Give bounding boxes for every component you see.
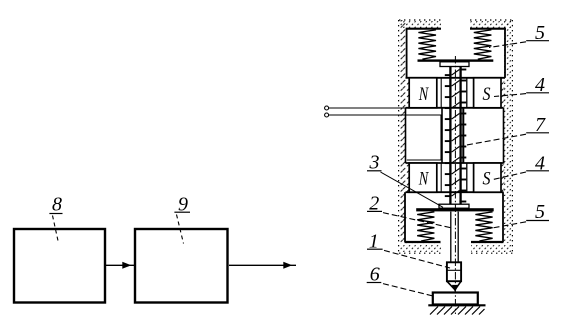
air gap line left row 2 bbox=[440, 163, 442, 192]
wire arrow 8 to 9 bbox=[106, 262, 134, 269]
lower chamber left wall bbox=[404, 192, 406, 242]
holder 1 bbox=[447, 262, 461, 281]
label 4 bottom bbox=[493, 153, 549, 180]
svg-text:N: N bbox=[418, 84, 429, 105]
magnet S row 1 bbox=[474, 78, 501, 108]
magnet S row 2 bbox=[474, 163, 501, 192]
label 6 bbox=[367, 263, 433, 296]
lower chamber floor bbox=[405, 241, 441, 243]
casing dotted outline right bbox=[511, 20, 513, 253]
terminal circle upper bbox=[325, 106, 329, 110]
air gap line right row 2 bbox=[466, 163, 468, 192]
lower chamber right wall bbox=[502, 192, 504, 242]
label 2 bbox=[367, 192, 452, 228]
block 9 bbox=[135, 229, 228, 303]
spring 5 upper right bbox=[474, 30, 492, 59]
label 1 bbox=[367, 230, 450, 268]
air gap line left row 1 bbox=[440, 78, 442, 108]
casing dotted outline bottom bbox=[399, 252, 441, 254]
casing hatched left wall bbox=[399, 20, 406, 243]
label 3 bbox=[367, 152, 443, 208]
label 8 bbox=[49, 194, 62, 244]
ground hatch bbox=[430, 307, 485, 315]
magnet row 2 bottom line bbox=[406, 191, 504, 193]
ground line bbox=[428, 304, 485, 306]
magnet row 1 top line bbox=[406, 77, 506, 79]
upper chamber left wall bbox=[406, 28, 408, 78]
block 8 bbox=[14, 229, 105, 303]
svg-text:N: N bbox=[418, 169, 429, 190]
magnet row 2 top line bbox=[406, 162, 504, 164]
magnet N row 1 bbox=[409, 78, 437, 108]
wire lower bbox=[329, 114, 409, 116]
coil chamber right block bbox=[462, 108, 464, 163]
upper chamber right wall bbox=[504, 28, 506, 78]
casing hatched bottom strip bbox=[399, 244, 441, 253]
ceiling of upper spring chamber bbox=[406, 28, 441, 30]
spring 5 upper left bbox=[418, 30, 436, 59]
coil bobbin inner rect bbox=[407, 115, 441, 160]
svg-text:S: S bbox=[483, 84, 491, 105]
spring 5 lower left bbox=[417, 212, 434, 241]
coil chamber left block bbox=[405, 108, 407, 163]
spring 5 lower right bbox=[475, 212, 492, 241]
needle tip bbox=[452, 285, 458, 292]
svg-text:S: S bbox=[483, 169, 491, 190]
terminal circle lower bbox=[325, 113, 329, 117]
label 7 bbox=[464, 114, 550, 145]
label 5 bottom bbox=[490, 201, 550, 228]
centerline bbox=[454, 56, 456, 314]
tip cone bbox=[447, 281, 461, 290]
svg-text:8: 8 bbox=[52, 194, 62, 216]
magnet N row 2 bbox=[409, 163, 437, 192]
magnet row 1 bottom line bbox=[406, 107, 504, 109]
lower boss bbox=[439, 204, 469, 208]
label 5 top bbox=[489, 22, 549, 47]
screw rod right line bbox=[459, 66, 461, 204]
label 4 top bbox=[494, 74, 549, 97]
coil helix 7 bbox=[445, 70, 467, 202]
air gap line right row 1 bbox=[466, 78, 468, 108]
label 9 bbox=[174, 194, 190, 244]
screw rod left line bbox=[449, 66, 451, 204]
casing hatched right wall bbox=[504, 20, 513, 243]
rod 2 below plate bbox=[450, 212, 452, 263]
lower armature plate bbox=[416, 208, 494, 211]
workpiece 6 bbox=[433, 293, 478, 305]
casing hatched top strip bbox=[399, 20, 441, 28]
upper boss bbox=[440, 62, 469, 67]
wire upper bbox=[329, 107, 409, 109]
casing dotted outline left bbox=[398, 20, 400, 253]
wire arrow output of 9 bbox=[229, 262, 296, 269]
upper armature plate bbox=[418, 59, 494, 61]
casing dotted outline top bbox=[399, 19, 441, 21]
